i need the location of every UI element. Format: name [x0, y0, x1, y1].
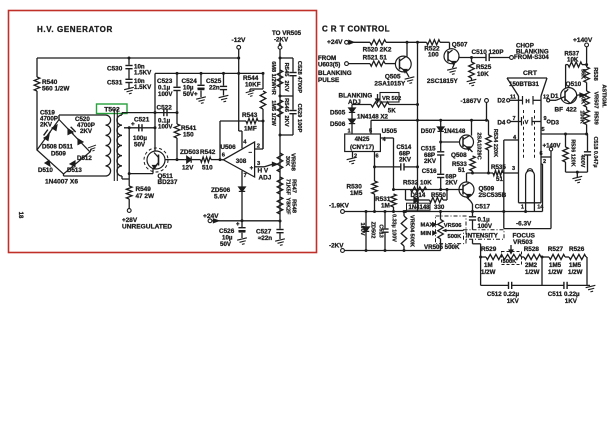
svg-text:-1867V: -1867V [461, 98, 482, 105]
resistor R526 [565, 256, 569, 258]
resistor R532 [411, 187, 427, 192]
svg-text:ZD502: ZD502 [370, 222, 376, 239]
svg-text:Q510: Q510 [566, 81, 582, 88]
wire Q505 collector [406, 42, 408, 56]
svg-text:51: 51 [496, 176, 503, 183]
svg-text:1KV: 1KV [507, 298, 520, 305]
resistor R522 [427, 40, 441, 45]
svg-text:UNREGULATED: UNREGULATED [122, 224, 172, 231]
svg-text:VR505 500K: VR505 500K [424, 244, 460, 251]
svg-text:150BTB31: 150BTB31 [509, 81, 539, 88]
svg-text:VR: VR [382, 96, 391, 102]
wire pin1 pin14 stubs [525, 203, 527, 212]
node R544 top junction [262, 72, 265, 75]
potentiometer VR504 [403, 212, 405, 217]
wire Q511 collector [154, 150, 156, 153]
wire op-amp pin2 to R544 node [255, 148, 263, 150]
svg-text:D1: D1 [551, 93, 559, 100]
potentiometer VR508 [277, 153, 283, 172]
svg-text:≈22n: ≈22n [258, 235, 272, 242]
svg-text:H: H [526, 99, 530, 105]
svg-text:400V: 400V [579, 155, 585, 168]
wire R537 to Q510 collector [565, 65, 567, 89]
resistor R534 [488, 120, 490, 135]
svg-text:D513: D513 [67, 167, 82, 174]
svg-text:1M5: 1M5 [350, 190, 363, 197]
svg-text:1: 1 [521, 204, 524, 210]
label INTENSITY dash-dot box [464, 230, 505, 240]
capacitor C523 [176, 73, 178, 86]
svg-text:Q508: Q508 [451, 152, 467, 159]
svg-text:100K: 100K [579, 110, 585, 123]
svg-text:1KV: 1KV [565, 298, 578, 305]
svg-text:R550: R550 [431, 192, 446, 199]
svg-text:1/2W: 1/2W [548, 269, 563, 276]
svg-text:D514: D514 [411, 192, 426, 199]
diode D507 [440, 120, 442, 127]
resistor R533 [470, 149, 473, 152]
wire R532 row y189.5 [394, 189, 460, 191]
wire Q509 emitter to cathode wire [467, 197, 471, 201]
capacitor C529 [289, 110, 296, 112]
capacitor C514 [400, 163, 402, 170]
ground bottom right [586, 285, 597, 292]
svg-text:FROM-S304: FROM-S304 [514, 54, 549, 61]
svg-text:D506: D506 [330, 121, 346, 128]
ground below C525 [219, 95, 230, 102]
transistor Q509 [466, 173, 468, 182]
svg-text:BF: BF [555, 107, 564, 114]
ground below C527 [275, 239, 286, 246]
svg-text:100V: 100V [158, 91, 173, 98]
ground below R536/C518 [576, 172, 578, 177]
svg-text:50V: 50V [220, 241, 232, 248]
wire HV divider column [279, 49, 281, 221]
svg-text:50K: 50K [580, 94, 586, 104]
resistor R546 [277, 100, 283, 117]
wire U505 pin4 to R531 column [380, 137, 393, 139]
wire Q511 emitter to R549 [152, 168, 154, 173]
svg-text:2SC535B: 2SC535B [479, 192, 507, 199]
svg-text:BD237: BD237 [158, 179, 178, 186]
svg-text:2KV: 2KV [283, 80, 289, 91]
svg-text:7: 7 [244, 173, 247, 179]
svg-text:18: 18 [17, 212, 23, 219]
wire pin6 to +140V terminal [541, 156, 551, 158]
svg-text:INTENSITY: INTENSITY [466, 232, 498, 239]
svg-text:50V+: 50V+ [183, 91, 198, 98]
svg-text:-6.3V: -6.3V [516, 221, 532, 228]
svg-text:3: 3 [512, 166, 515, 172]
svg-text:1N4007 X6: 1N4007 X6 [45, 179, 78, 186]
svg-text:R536 120K: R536 120K [570, 139, 576, 166]
wire C528/C529 parallel column [280, 57, 293, 59]
svg-text:10K: 10K [477, 71, 489, 78]
svg-text:1MF: 1MF [244, 126, 257, 133]
svg-text:100V: 100V [359, 222, 365, 235]
wire C521 node down to R549 [128, 128, 130, 186]
transformer T502 core [113, 109, 115, 181]
svg-text:D505: D505 [330, 110, 346, 117]
svg-text:500K: 500K [448, 234, 463, 240]
svg-text:6: 6 [376, 154, 379, 160]
capacitor C530 [128, 58, 130, 65]
wire bridge bottom to transformer primary bottom [63, 174, 65, 176]
svg-text:VR506: VR506 [444, 223, 463, 229]
svg-text:C530: C530 [107, 66, 123, 73]
capacitor C516 [437, 173, 444, 175]
wire C517 to chain left [472, 239, 474, 244]
wire Q505 emitter to ground [406, 72, 409, 78]
svg-text:R538: R538 [592, 67, 598, 80]
svg-text:MIN: MIN [421, 231, 432, 237]
svg-text:C513: C513 [378, 224, 384, 237]
resistor R544 with ground tap [262, 73, 264, 89]
wire +24V to Q505/Q507 [348, 41, 370, 43]
resistor R527 [549, 254, 565, 259]
resistor R548 [277, 197, 283, 214]
svg-text:100V: 100V [478, 223, 493, 230]
svg-text:-1.9KV: -1.9KV [329, 203, 350, 210]
zener diode ZD503 [184, 159, 187, 161]
svg-text:2KV: 2KV [80, 128, 93, 135]
svg-text:9: 9 [544, 116, 547, 122]
svg-text:1M5 1/2W: 1M5 1/2W [270, 100, 276, 126]
capacitor C526 electrolytic [241, 221, 243, 227]
zener diode ZD506 [239, 187, 245, 191]
svg-text:22n: 22n [209, 85, 220, 92]
svg-text:1N4148 X2: 1N4148 X2 [357, 114, 389, 121]
svg-text:ZD503: ZD503 [180, 149, 200, 156]
svg-text:10KF: 10KF [245, 82, 261, 89]
capacitor C518 [587, 134, 589, 151]
red highlight box around H.V. GENERATOR section [9, 11, 317, 253]
transistor Q511 heatsink dashed circle [144, 148, 168, 172]
diode D514 and resistor R550 row [405, 190, 407, 201]
diode D506 [351, 113, 353, 120]
potentiometer VR503 body [503, 254, 522, 259]
svg-text:U506: U506 [220, 144, 236, 151]
svg-text:14: 14 [537, 204, 544, 210]
op-amp U506 [223, 142, 254, 177]
svg-text:VR507: VR507 [592, 91, 598, 108]
svg-text:1/2W: 1/2W [525, 269, 540, 276]
arrow FOCUS to VR503 pot [510, 245, 512, 250]
resistor R525 to ground [471, 58, 473, 63]
svg-text:R529: R529 [481, 246, 497, 253]
wire Q510 base from D1 [550, 99, 556, 101]
resistor R536 [565, 134, 567, 147]
wire secondary bottom to R549 [121, 176, 123, 179]
svg-text:VR503: VR503 [513, 239, 533, 246]
terminal +28V [127, 209, 131, 213]
terminal D1 [547, 99, 550, 102]
svg-text:R528: R528 [524, 246, 540, 253]
svg-text:H V: H V [258, 168, 269, 175]
resistor R540 [36, 58, 38, 77]
wire secondary top to C522 line [121, 113, 123, 115]
wire chain verticals [480, 257, 482, 285]
svg-text:C531: C531 [107, 80, 123, 87]
svg-text:H.V. GENERATOR: H.V. GENERATOR [37, 25, 113, 34]
wire cathode row y173 [467, 172, 494, 174]
capacitor C510 [485, 54, 487, 61]
capacitor C524 electrolytic [200, 73, 202, 84]
svg-text:56K: 56K [580, 69, 586, 79]
svg-text:C528 4700P: C528 4700P [296, 61, 302, 93]
svg-text:47 2W: 47 2W [136, 193, 155, 200]
wire y134 from CRT pin5 [541, 133, 588, 135]
wire Q510 emitter wiper to VR507 [571, 95, 578, 104]
svg-text:D4: D4 [497, 120, 505, 127]
svg-text:11: 11 [510, 94, 516, 100]
wire Q511 base [165, 159, 184, 161]
wire y172.1 bottom of R536/C518 [566, 171, 588, 173]
svg-text:D512: D512 [77, 155, 92, 162]
wire op-amp output pin3 to VR508 wiper [255, 166, 265, 168]
svg-text:6: 6 [540, 151, 543, 157]
svg-text:502: 502 [392, 96, 402, 102]
transformer T502 primary winding [106, 115, 111, 176]
svg-text:R521 51: R521 51 [363, 54, 388, 61]
svg-text:R532 10K: R532 10K [403, 180, 432, 187]
node C530 junction [128, 57, 131, 60]
wire Q507 collector from R522 [440, 41, 450, 43]
wire heater return y228.6 [504, 228, 551, 230]
wire Q507 to C510 [458, 57, 460, 58]
wire -12V rail down [238, 49, 240, 131]
wire op-amp pin4 to -12V rail [241, 131, 243, 148]
svg-text:150: 150 [183, 132, 194, 139]
node C525 junction [222, 72, 225, 75]
resistor R541 [176, 113, 178, 124]
wire pin4 down the left of tube [504, 139, 519, 141]
wire top rail y58 [37, 57, 239, 59]
svg-text:R539: R539 [592, 111, 598, 124]
svg-text:2KV: 2KV [399, 157, 412, 164]
svg-text:U505: U505 [382, 128, 398, 135]
svg-text:C518 0.047µ: C518 0.047µ [592, 137, 598, 168]
svg-text:(CNY17): (CNY17) [350, 144, 374, 151]
resistor R543 [220, 120, 246, 122]
ground below C531 [128, 83, 130, 88]
svg-text:71K5F: 71K5F [285, 179, 291, 196]
svg-text:1/2W: 1/2W [481, 269, 496, 276]
terminal D3 [547, 120, 550, 123]
svg-text:1N4148: 1N4148 [444, 128, 466, 135]
svg-text:ASTIGM.: ASTIGM. [601, 84, 607, 108]
svg-text:10K: 10K [567, 57, 579, 64]
transistor Q511 [147, 151, 165, 169]
svg-text:6M8 1/2WHR: 6M8 1/2WHR [270, 61, 276, 95]
resistor R528 [524, 254, 541, 259]
capacitor C521 [138, 124, 140, 131]
resistor R521 [370, 61, 385, 66]
svg-text:100V: 100V [158, 124, 173, 131]
wire y120.3 long [371, 119, 489, 121]
svg-text:2KV: 2KV [40, 122, 53, 129]
node C523 junction [176, 72, 179, 75]
node C524 junction [200, 72, 203, 75]
svg-text:-12V: -12V [232, 37, 247, 44]
svg-text:50V: 50V [134, 141, 146, 148]
svg-text:2SA1015Y: 2SA1015Y [374, 80, 406, 87]
resistor R547 [277, 177, 283, 194]
svg-text:+140V: +140V [573, 37, 593, 44]
wire bottom row y285.4 [481, 284, 509, 286]
svg-text:12V: 12V [182, 165, 194, 172]
svg-text:1/2W: 1/2W [568, 269, 583, 276]
svg-text:ADJ: ADJ [259, 175, 272, 182]
diode D505 [351, 105, 353, 109]
resistor R535 [493, 170, 503, 175]
svg-text:100: 100 [428, 52, 439, 59]
transistor Q505 [395, 56, 411, 72]
potentiometer VR502 with box label [352, 104, 371, 106]
ground at bridge right corner [90, 149, 92, 153]
wire U505 pin6 down [374, 152, 376, 182]
transistor Q507 [444, 49, 459, 64]
svg-text:C521: C521 [134, 117, 150, 124]
svg-text:+24V: +24V [327, 39, 343, 46]
potentiometer VR503 500K dashed box [502, 252, 522, 265]
ground at U505 pin2 [352, 152, 354, 158]
capacitor C528 [289, 72, 296, 74]
wire blanking pulse to R521 [348, 63, 370, 65]
svg-text:5.6V: 5.6V [214, 194, 228, 201]
svg-text:+: + [250, 165, 254, 172]
svg-text:C517: C517 [475, 203, 491, 210]
svg-text:VR504 500K: VR504 500K [409, 215, 415, 247]
potentiometer VR507 [586, 83, 588, 92]
svg-text:422: 422 [566, 107, 577, 114]
svg-text:+: + [236, 222, 240, 228]
wire cathode row y211.5 right part [418, 211, 543, 213]
svg-text:R534 220K: R534 220K [492, 129, 498, 157]
node chain mid [541, 256, 549, 258]
potentiometer VR506 dash-dot box [436, 216, 467, 244]
svg-text:5K: 5K [388, 107, 396, 114]
svg-text:CRT: CRT [523, 70, 538, 77]
svg-text:Q507: Q507 [452, 42, 468, 49]
svg-text:4N25: 4N25 [355, 136, 370, 143]
wire +24V rail [212, 220, 280, 222]
zener diode ZD502 [365, 212, 367, 228]
svg-text:510: 510 [202, 165, 213, 172]
svg-text:2KV: 2KV [445, 180, 458, 187]
svg-text:1N4148: 1N4148 [409, 205, 431, 211]
CRT heater filament [526, 171, 535, 203]
capacitor C527 [279, 221, 281, 229]
wire pin2 down [541, 163, 543, 165]
svg-text:R543: R543 [242, 112, 258, 119]
capacitor C513 [384, 212, 386, 229]
CRT grid dashed electrodes [523, 110, 525, 158]
svg-text:C510 120P: C510 120P [472, 49, 505, 56]
capacitor C522 [163, 109, 165, 116]
diode bridge D508-D513 1N4007 X6 [37, 120, 90, 175]
wire secondary tap to C521 line [124, 127, 155, 129]
svg-text:0.33µ 100V: 0.33µ 100V [391, 214, 397, 242]
svg-text:R526: R526 [569, 246, 585, 253]
svg-text:1.5KV: 1.5KV [134, 84, 152, 91]
transformer T502 green label box [97, 104, 128, 114]
wire op-amp pin7 down [241, 171, 243, 187]
svg-text:PULSE: PULSE [318, 77, 340, 84]
svg-text:560 1/2W: 560 1/2W [42, 86, 70, 93]
capacitor C531 [128, 69, 130, 79]
svg-text:MAX: MAX [421, 223, 434, 229]
svg-text:Y8K2F: Y8K2F [285, 198, 291, 215]
transformer T502 secondary winding [117, 115, 122, 176]
CRT H deflection plates [522, 96, 524, 105]
svg-text:308: 308 [236, 158, 247, 165]
svg-text:2KV: 2KV [424, 158, 437, 165]
svg-text:-2KV: -2KV [274, 36, 289, 43]
svg-text:R546: R546 [283, 98, 289, 113]
svg-text:V: V [525, 120, 529, 126]
svg-text:2: 2 [543, 159, 546, 165]
wire bridge top to transformer primary [58, 115, 60, 120]
svg-text:5: 5 [542, 127, 545, 133]
CRT V deflection plates [521, 117, 523, 126]
transistor Q508 [471, 120, 473, 135]
resistor R549 [126, 186, 132, 199]
wire Q507 emitter to ground [453, 64, 455, 69]
capacitor C520 [68, 127, 75, 134]
resistor R530 [372, 181, 378, 194]
node R525 junction [470, 56, 473, 59]
svg-text:R520 2K2: R520 2K2 [363, 47, 392, 54]
svg-text:1: 1 [348, 129, 351, 135]
svg-text:51: 51 [458, 167, 465, 174]
svg-text:R545: R545 [283, 63, 289, 78]
terminal CHOP BLANKING FROM-S304 [510, 56, 514, 60]
svg-text:D507: D507 [421, 128, 436, 135]
ground below C526 [237, 238, 248, 245]
CRT tube envelope 150BTB31 [507, 77, 547, 79]
resistor R539 [584, 110, 590, 125]
svg-text:30K: 30K [284, 156, 290, 166]
svg-text:C R T CONTROL: C R T CONTROL [322, 25, 390, 34]
svg-text:330: 330 [434, 204, 445, 211]
capacitor C511 [563, 282, 565, 289]
svg-text:R542: R542 [200, 149, 216, 156]
svg-text:−: − [248, 150, 252, 157]
svg-text:C516: C516 [422, 168, 437, 175]
optocoupler U505 4N25 box [345, 134, 381, 152]
capacitor C519 [44, 130, 51, 138]
svg-text:2: 2 [354, 154, 357, 160]
svg-text:D3: D3 [551, 120, 559, 127]
resistor R542 [192, 159, 201, 161]
svg-text:R527: R527 [548, 246, 564, 253]
svg-text:C529 100P: C529 100P [296, 103, 302, 132]
wire +140V rail [586, 47, 588, 67]
svg-text:2KV: 2KV [283, 115, 289, 126]
resistor R520 [370, 40, 386, 45]
wire y166.9 to C514 [375, 166, 401, 168]
wire x155 vertical to Q511 collector [154, 73, 156, 150]
resistor R538 [584, 67, 590, 83]
resistor R529 [486, 254, 503, 259]
capacitor C515 [440, 142, 442, 151]
svg-text:R549: R549 [136, 186, 152, 193]
svg-text:U603(5): U603(5) [318, 61, 340, 68]
capacitor C512 [508, 282, 510, 289]
svg-text:D510: D510 [38, 167, 53, 174]
svg-text:D508 D511: D508 D511 [42, 144, 74, 151]
